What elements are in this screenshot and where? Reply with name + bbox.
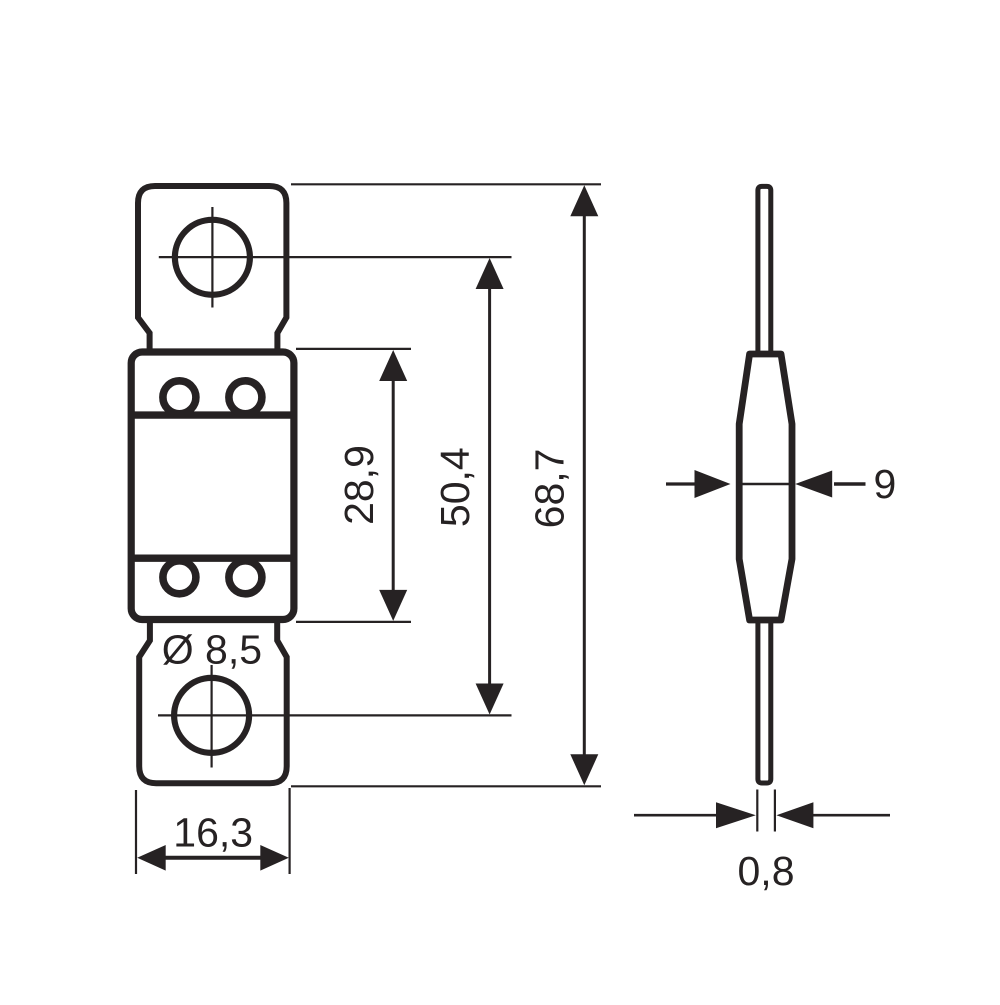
dimension 0,8: right extension line [774,790,776,832]
dimension 9: right arrowhead (pointing left) [795,471,832,498]
dimension 16,3: left arrowhead [137,845,166,871]
front view: body upper separator line [131,411,294,418]
svg-text:16,3: 16,3 [173,809,253,855]
front view: top mounting tab [138,186,286,353]
front view: bottom mounting hole [174,678,249,753]
dimension 50,4: bottom extension line through hole center [158,714,512,716]
dimension 68,7: vertical dimension line [583,215,586,757]
dimension 28,9: top extension line [296,348,411,350]
dimension 68,7: top extension line [291,183,601,185]
dimension 28,9: top arrowhead [379,350,407,381]
front view: upper-right rivet circle [229,381,262,414]
svg-text:Ø 8,5: Ø 8,5 [162,627,262,673]
front view: top hole vertical centerline [211,207,213,308]
front view: top mounting hole [175,220,250,295]
side view: bottom blade terminal [758,620,771,783]
side view: fuse body barrel outline [739,354,792,620]
dimension 0,8: right arrowhead (pointing left) [776,802,813,828]
dimension 68,7: top arrowhead [570,185,598,216]
dimension 28,9: vertical dimension line [392,379,395,592]
dimension 28,9: bottom arrowhead [379,590,407,621]
front view: fuse body outline [131,352,294,620]
side view: top blade terminal [758,186,771,353]
dimension 0,8: left extension line [756,790,758,832]
svg-text:68,7: 68,7 [526,448,572,528]
front view: lower-left rivet circle [163,561,196,594]
dimension 9: line across barrel [736,483,795,486]
svg-text:50,4: 50,4 [432,447,478,527]
front view: lower-right rivet circle [229,561,262,594]
front view: body lower separator line [131,555,294,562]
dimension 50,4: vertical dimension line [488,287,491,685]
dimension 0,8: right dimension line [806,814,890,817]
dimension 16,3: right extension line [289,788,291,874]
dimension 9: right dimension line [834,482,866,486]
dimension 0,8: left dimension line [634,814,726,817]
dimension 16,3: horizontal dimension line [164,856,262,860]
svg-text:9: 9 [873,461,896,507]
svg-text:28,9: 28,9 [336,445,382,525]
dimension 50,4: top extension line through hole center [159,256,512,258]
dimension 50,4: top arrowhead [476,258,504,289]
dimension 9: left arrowhead (pointing right) [695,470,731,498]
dimension 16,3: right arrowhead [260,845,289,871]
front view: bottom hole vertical centerline [211,665,213,768]
front view: bottom mounting tab [139,618,287,783]
dimension 68,7: bottom arrowhead [570,754,598,785]
dimension 16,3: left extension line [135,790,137,874]
svg-text:0,8: 0,8 [738,848,795,894]
dimension 28,9: bottom extension line [296,621,411,623]
dimension 0,8: left arrowhead (pointing right) [716,802,756,828]
dimension 9: left dimension line [666,482,700,485]
dimension 50,4: bottom arrowhead [476,684,504,715]
front view: upper-left rivet circle [163,381,196,414]
dimension 68,7: bottom extension line [291,785,601,787]
